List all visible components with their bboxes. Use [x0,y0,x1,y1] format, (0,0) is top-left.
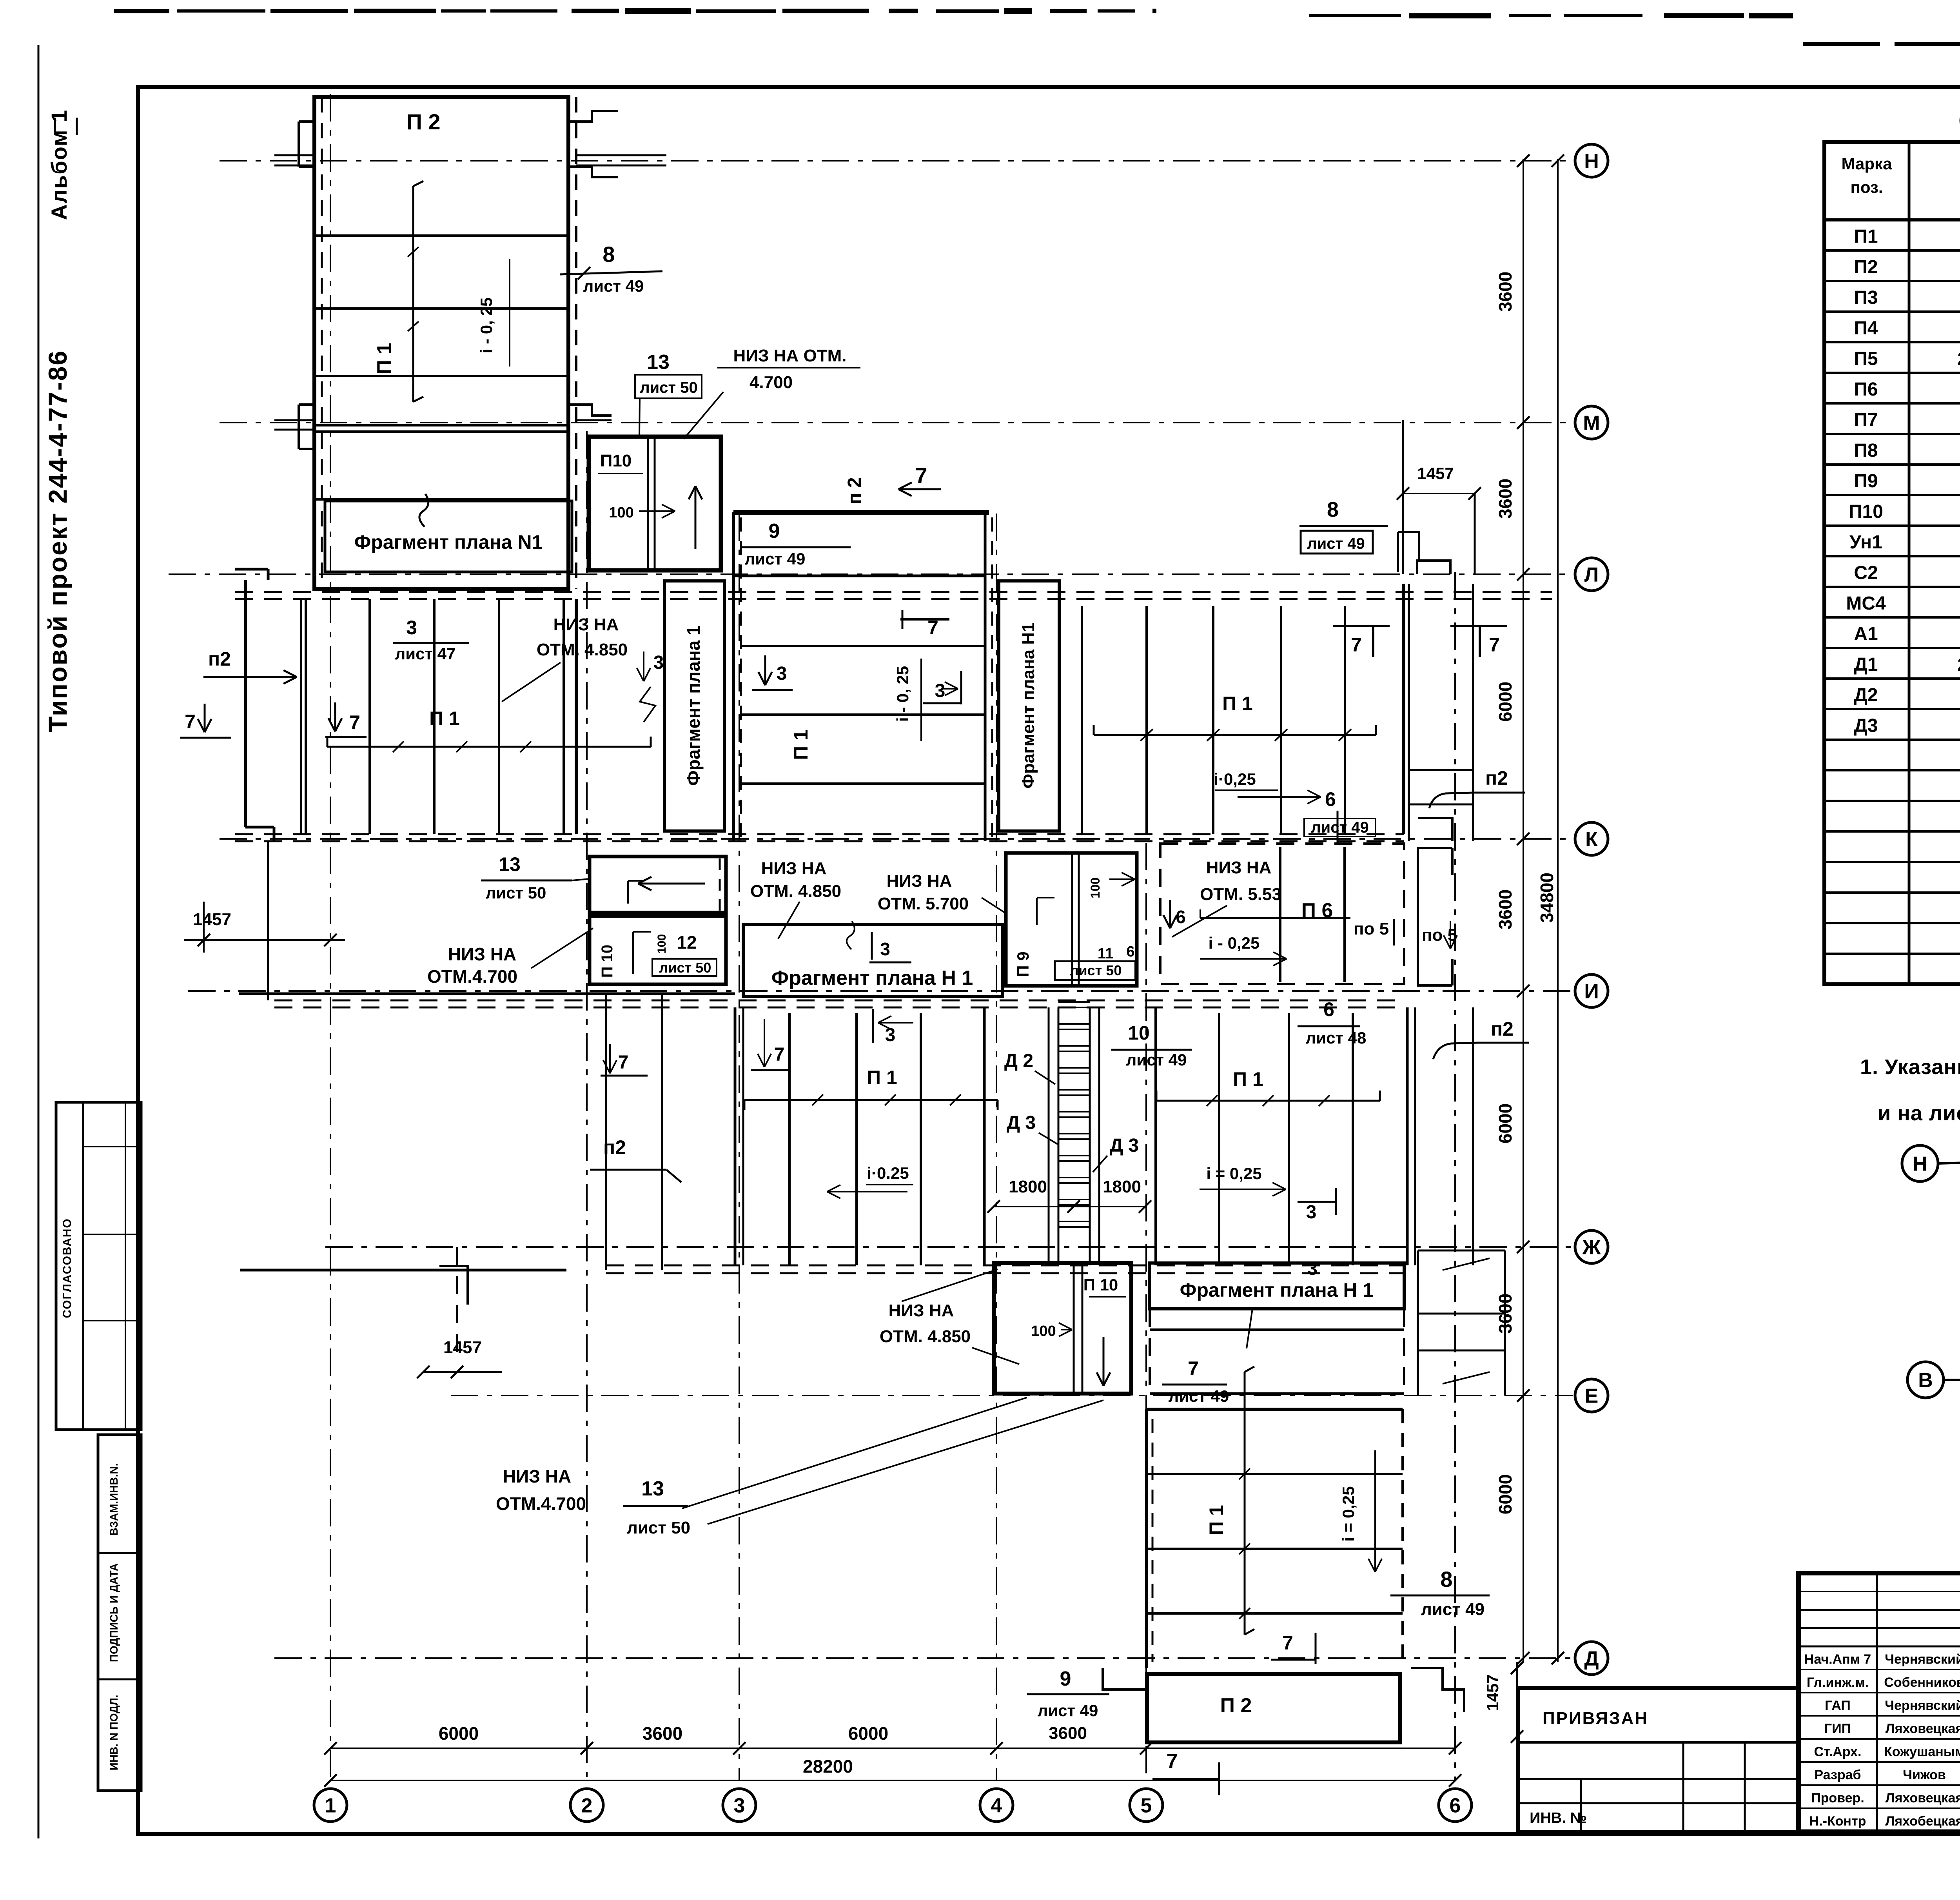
svg-text:ОТМ. 4.850: ОТМ. 4.850 [750,882,841,901]
svg-text:ОТМ. 5.53: ОТМ. 5.53 [1200,885,1281,904]
svg-text:лист 50: лист 50 [659,960,711,976]
svg-text:Д1: Д1 [1854,654,1878,675]
svg-text:Фрагмент плана 1: Фрагмент плана 1 [683,625,704,786]
svg-text:Ст.Арх.: Ст.Арх. [1814,1744,1862,1759]
svg-text:П 1: П 1 [373,343,396,375]
svg-text:34800: 34800 [1537,873,1557,923]
svg-text:и на листе 45: и на листе 45 [1878,1102,1960,1125]
svg-text:1800: 1800 [1009,1177,1047,1196]
svg-text:П5: П5 [1854,348,1878,369]
svg-text:Кожушаным: Кожушаным [1884,1744,1960,1759]
svg-text:ГИП: ГИП [1824,1721,1851,1736]
svg-text:П7: П7 [1854,410,1878,430]
svg-text:Ляховецкая: Ляховецкая [1886,1791,1960,1806]
svg-text:П 10: П 10 [599,945,616,978]
svg-text:6: 6 [1126,944,1134,960]
svg-text:Ж: Ж [1582,1236,1601,1259]
svg-text:100: 100 [609,504,633,521]
svg-text:лист 49: лист 49 [1421,1600,1485,1619]
svg-text:13: 13 [499,853,521,875]
svg-text:244-4-77.86 КДИ-01: 244-4-77.86 КДИ-01 [1957,348,1960,369]
svg-text:ГАП: ГАП [1825,1698,1851,1713]
svg-text:Спецификация элементов покры: Спецификация элементов покрытия [1958,107,1960,135]
svg-text:Д 3: Д 3 [1007,1112,1036,1133]
svg-text:Ляхобецкая: Ляхобецкая [1885,1814,1960,1829]
svg-text:Разраб: Разраб [1814,1768,1861,1782]
svg-text:4: 4 [991,1795,1002,1817]
svg-text:100: 100 [1031,1323,1056,1339]
svg-text:лист 49: лист 49 [583,277,644,295]
svg-text:Гл.инж.м.: Гл.инж.м. [1807,1675,1869,1690]
svg-text:11: 11 [1098,945,1113,962]
svg-text:НИЗ НА: НИЗ НА [889,1301,954,1320]
svg-text:ОТМ. 4.850: ОТМ. 4.850 [537,640,628,659]
svg-text:1: 1 [325,1795,336,1817]
svg-text:П8: П8 [1854,440,1878,461]
svg-text:244-4-77.86 КДИ-07: 244-4-77.86 КДИ-07 [1957,654,1960,675]
svg-text:3600: 3600 [1495,479,1515,519]
svg-text:3600: 3600 [1495,272,1515,312]
svg-text:i - 0, 25: i - 0, 25 [477,298,495,353]
svg-text:3: 3 [1307,1258,1318,1279]
svg-text:100: 100 [655,934,668,954]
svg-text:1457: 1457 [443,1338,482,1357]
svg-text:П 1: П 1 [867,1067,897,1089]
svg-text:Марка: Марка [1842,154,1893,173]
svg-text:лист 49: лист 49 [1311,819,1368,836]
svg-text:П 1: П 1 [1205,1505,1227,1535]
svg-text:лист 49: лист 49 [745,550,806,568]
svg-text:Ляховецкая: Ляховецкая [1886,1721,1960,1736]
svg-text:ОТМ.4.700: ОТМ.4.700 [496,1494,586,1514]
svg-text:М: М [1583,412,1600,435]
svg-text:НИЗ НА: НИЗ НА [761,859,827,878]
svg-text:А1: А1 [1854,624,1878,644]
svg-text:П 9: П 9 [1014,951,1032,977]
svg-text:3: 3 [406,617,417,639]
svg-text:13: 13 [641,1477,664,1500]
svg-text:И: И [1584,980,1599,1003]
svg-text:п 2: п 2 [844,477,865,504]
svg-text:Фрагмент плана Н 1: Фрагмент плана Н 1 [771,967,973,989]
svg-text:Л: Л [1584,564,1599,586]
svg-text:3600: 3600 [1049,1724,1087,1743]
svg-text:П 10: П 10 [1083,1276,1118,1294]
svg-text:6: 6 [1323,998,1334,1020]
svg-text:по 5: по 5 [1422,926,1457,945]
svg-text:К: К [1585,828,1598,851]
svg-text:i = 0,25: i = 0,25 [1339,1486,1357,1541]
svg-text:поз.: поз. [1850,178,1883,196]
svg-text:12: 12 [677,932,697,953]
svg-text:НИЗ НА: НИЗ НА [1206,858,1272,877]
svg-text:Собенников: Собенников [1884,1675,1960,1690]
svg-text:1. Указания по монтажу см. на: 1. Указания по монтажу см. на листах общ… [1860,1055,1960,1079]
svg-text:НИЗ НА ОТМ.: НИЗ НА ОТМ. [733,346,847,365]
svg-text:лист 49: лист 49 [1307,535,1365,552]
svg-text:П2: П2 [1854,257,1878,278]
svg-text:6: 6 [1450,1795,1461,1817]
svg-text:3600: 3600 [1495,889,1515,929]
svg-text:6: 6 [1176,907,1186,927]
svg-text:7: 7 [1351,634,1362,656]
svg-text:Д2: Д2 [1854,685,1878,706]
svg-text:П 1: П 1 [790,730,812,760]
svg-text:п2: п2 [208,648,231,670]
svg-text:7: 7 [1282,1632,1293,1654]
svg-text:Альбом 1: Альбом 1 [47,109,71,220]
svg-text:лист 50: лист 50 [486,884,546,902]
svg-text:лист 47: лист 47 [395,644,456,663]
svg-text:8: 8 [1440,1567,1452,1591]
svg-text:НИЗ НА: НИЗ НА [554,615,619,634]
svg-text:Фрагмент плана Н 1: Фрагмент плана Н 1 [1180,1279,1374,1301]
svg-text:8: 8 [603,242,615,267]
svg-text:7: 7 [349,711,360,733]
svg-text:В: В [1918,1369,1933,1392]
svg-text:6000: 6000 [848,1723,888,1744]
svg-text:ОТМ. 4.850: ОТМ. 4.850 [880,1327,971,1346]
svg-text:7: 7 [1188,1357,1199,1379]
svg-text:лист 48: лист 48 [1306,1029,1367,1047]
svg-text:10: 10 [1128,1022,1150,1044]
svg-text:3: 3 [880,939,890,959]
svg-text:МС4: МС4 [1846,593,1886,614]
svg-text:4.700: 4.700 [750,373,793,392]
svg-text:Фрагмент плана N1: Фрагмент плана N1 [354,531,543,553]
svg-text:ПРИВЯЗАН: ПРИВЯЗАН [1543,1709,1648,1728]
svg-text:лист 49: лист 49 [1169,1387,1229,1405]
svg-text:7: 7 [185,711,196,733]
svg-text:С2: С2 [1854,563,1878,583]
svg-text:13: 13 [647,351,670,374]
svg-text:П 2: П 2 [1220,1694,1252,1717]
svg-text:НИЗ НА: НИЗ НА [448,944,516,964]
svg-text:лист 49: лист 49 [1038,1701,1098,1720]
svg-text:П9: П9 [1854,471,1878,492]
svg-text:100: 100 [1088,877,1102,898]
svg-text:ОТМ.4.700: ОТМ.4.700 [427,966,517,987]
svg-text:п2: п2 [603,1136,626,1158]
svg-text:лист 50: лист 50 [640,379,697,396]
svg-text:3: 3 [935,681,946,701]
svg-text:ВЗАМ.ИНВ.N.: ВЗАМ.ИНВ.N. [108,1463,120,1535]
svg-text:СОГЛАСОВАНО: СОГЛАСОВАНО [61,1218,74,1318]
svg-text:п2: п2 [1491,1018,1514,1040]
svg-text:7: 7 [1489,634,1500,656]
svg-text:28200: 28200 [803,1756,853,1777]
svg-text:Провер.: Провер. [1811,1791,1864,1806]
svg-text:П4: П4 [1854,318,1878,339]
svg-text:3: 3 [653,652,664,673]
svg-text:Ун1: Ун1 [1849,532,1882,553]
svg-text:i·0,25: i·0,25 [1214,770,1256,788]
svg-text:1457: 1457 [193,910,231,929]
svg-text:9: 9 [1060,1668,1071,1690]
svg-text:Д 2: Д 2 [1004,1051,1033,1071]
svg-text:Чижов: Чижов [1903,1768,1946,1782]
svg-text:7: 7 [1167,1750,1178,1773]
svg-text:П 2: П 2 [407,109,441,134]
svg-text:3600: 3600 [642,1723,682,1744]
svg-text:Фрагмент плана Н1: Фрагмент плана Н1 [1019,622,1038,788]
svg-text:6000: 6000 [1495,1474,1515,1514]
svg-text:i·0.25: i·0.25 [867,1164,909,1182]
svg-text:НИЗ НА: НИЗ НА [503,1466,571,1486]
svg-text:П10: П10 [600,451,632,470]
svg-text:3: 3 [734,1795,745,1817]
svg-text:6000: 6000 [439,1723,479,1744]
svg-text:i - 0, 25: i - 0, 25 [893,666,912,722]
svg-text:7: 7 [618,1052,629,1073]
svg-text:1800: 1800 [1103,1177,1141,1196]
svg-text:ПОДПИСЬ И ДАТА: ПОДПИСЬ И ДАТА [108,1563,120,1662]
svg-text:Н: Н [1913,1153,1927,1176]
svg-text:по 5: по 5 [1354,919,1389,938]
svg-text:п2: п2 [1485,767,1508,789]
svg-text:i - 0,25: i - 0,25 [1209,934,1260,952]
svg-text:6000: 6000 [1495,682,1515,722]
svg-text:6: 6 [1325,788,1336,810]
svg-text:П10: П10 [1849,501,1883,522]
svg-text:3: 3 [777,663,787,684]
svg-text:Е: Е [1585,1385,1599,1408]
svg-text:П1: П1 [1854,226,1878,247]
svg-text:8: 8 [1327,498,1339,521]
svg-text:НИЗ НА: НИЗ НА [887,871,952,891]
svg-text:Н.-Контр: Н.-Контр [1809,1814,1866,1829]
svg-text:Д 3: Д 3 [1110,1135,1139,1156]
svg-text:9: 9 [769,520,780,543]
svg-text:7: 7 [915,463,927,488]
svg-text:П 1: П 1 [1233,1068,1263,1090]
svg-text:Чернявский: Чернявский [1885,1652,1960,1667]
svg-text:П3: П3 [1854,287,1878,308]
svg-text:ОТМ. 5.700: ОТМ. 5.700 [878,894,969,913]
svg-text:ИНВ. N ПОДЛ.: ИНВ. N ПОДЛ. [108,1695,120,1770]
svg-text:1457: 1457 [1417,464,1454,483]
svg-text:Чернявский: Чернявский [1885,1698,1960,1713]
svg-text:П6: П6 [1854,379,1878,400]
svg-text:ИНВ. №: ИНВ. № [1530,1810,1587,1826]
svg-text:лист 50: лист 50 [1070,962,1122,978]
svg-text:Д3: Д3 [1854,715,1878,736]
svg-text:5: 5 [1141,1795,1152,1817]
svg-text:П 1: П 1 [429,708,460,730]
svg-text:Н: Н [1584,150,1599,173]
svg-text:Нач.Апм 7: Нач.Апм 7 [1804,1652,1871,1667]
svg-text:6000: 6000 [1495,1103,1515,1143]
svg-text:i = 0,25: i = 0,25 [1206,1164,1261,1183]
svg-text:2: 2 [581,1795,593,1817]
svg-text:лист 50: лист 50 [627,1518,690,1537]
svg-text:3: 3 [1306,1202,1317,1223]
svg-text:7: 7 [774,1044,785,1065]
svg-text:Типовой проект 244-4-77-86: Типовой проект 244-4-77-86 [43,350,72,732]
svg-text:1457: 1457 [1483,1674,1502,1711]
svg-text:Д: Д [1584,1648,1599,1670]
svg-text:П 1: П 1 [1222,693,1253,715]
